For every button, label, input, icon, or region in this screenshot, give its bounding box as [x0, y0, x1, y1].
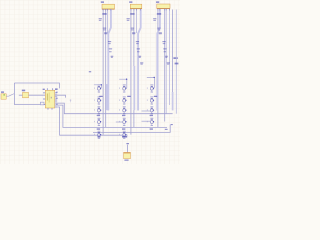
- net label col1 g: [111, 56, 114, 58]
- bus right vertical A lower: [172, 92, 174, 110]
- tick mark: [70, 100, 71, 103]
- net label col1 f: [109, 48, 112, 52]
- wire col3.4 vertical faint: [165, 9, 167, 114]
- net label col2 a: [130, 13, 134, 14]
- connector J1: [102, 4, 115, 9]
- net label col3 g: [165, 56, 168, 58]
- wire U1 left pins: [43, 93, 45, 105]
- wire col2.2 vertical: [133, 9, 135, 127]
- label under row4 x124: [122, 128, 125, 129]
- label U1 refdes: [55, 88, 58, 90]
- net label crystal: [126, 143, 129, 144]
- net label col1 d: [104, 32, 107, 34]
- bus col1 wide vertical: [108, 9, 111, 110]
- net label col3 d: [159, 32, 162, 34]
- net label col3 h: [167, 62, 170, 64]
- bus col1 lower wide: [106, 84, 108, 110]
- net label mid: [89, 71, 91, 72]
- wire crystal stub: [127, 145, 129, 153]
- transistor Q8: [120, 106, 127, 114]
- wire U1 bottom pins: [48, 108, 52, 110]
- capacitor C1 body: [23, 92, 29, 97]
- label J3: [156, 1, 159, 3]
- junction dot x99: [101, 84, 102, 85]
- transistor Q7: [94, 106, 101, 114]
- label X1: [124, 160, 128, 161]
- connector J3: [157, 4, 170, 8]
- connector J2 pin stubs: [131, 9, 141, 10]
- switch S1 lever: [6, 94, 14, 97]
- wire col3 row3 feed: [142, 110, 151, 112]
- wire elbow to U1 left pin: [14, 104, 40, 106]
- net label row4 end: [165, 129, 168, 130]
- label U1 pin1: [43, 89, 45, 90]
- wire col3 row4 feed: [142, 120, 151, 122]
- net label col1 b: [99, 18, 102, 21]
- connector J2: [130, 4, 142, 9]
- wire switch node vertical: [13, 83, 15, 105]
- U1 pin number c: [56, 104, 58, 105]
- U1 pin number a: [56, 92, 58, 93]
- transistor Q5: [120, 96, 127, 104]
- connector J3 pin stubs: [158, 9, 170, 10]
- resistor R1 small box: [40, 102, 44, 105]
- wire feed col glyph chain x99: [94, 85, 102, 88]
- connector J1 pin stubs: [103, 9, 111, 10]
- net label col3 a: [157, 13, 161, 14]
- transistor Q13: [94, 131, 101, 139]
- label under row4 x99: [97, 128, 100, 129]
- wire feed col glyph chain x152: [147, 77, 155, 88]
- net label col2 g: [139, 56, 142, 58]
- wire right vertical B: [175, 10, 177, 114]
- wire col1.1 vertical: [102, 9, 104, 134]
- wire U1 top pins: [47, 88, 52, 90]
- wire col3.3 vertical: [164, 9, 166, 121]
- transistor Q9: [147, 106, 154, 114]
- label J2: [129, 1, 132, 3]
- net label matrix col2: [127, 96, 130, 97]
- label under row3 x152: [150, 115, 153, 116]
- U1 pin number b: [56, 98, 58, 99]
- label under row3 x124: [122, 115, 125, 116]
- wire col1.2 vertical: [105, 9, 107, 127]
- bus col2 wide vertical: [138, 9, 141, 110]
- transistor Q6: [147, 96, 154, 104]
- net label right B: [175, 63, 179, 65]
- net label row5: [122, 136, 127, 138]
- wire right vertical A: [172, 10, 174, 93]
- net label col1 e: [108, 41, 111, 44]
- transistor Q4: [94, 96, 101, 104]
- label J1: [101, 1, 104, 3]
- label S1: [1, 91, 4, 93]
- wire row4: [55, 105, 167, 127]
- wire rail y83: [14, 83, 59, 88]
- wire col2.1 vertical: [130, 9, 132, 134]
- net label col3 c: [157, 28, 160, 31]
- label C1: [22, 90, 25, 92]
- wire col2.3 vertical faint: [135, 9, 137, 33]
- transistor Q3: [147, 84, 154, 92]
- transistor Q12: [147, 118, 154, 126]
- wire col2 row4 feed: [116, 121, 123, 123]
- bus col2 lower wide: [133, 66, 135, 110]
- switch S1 body: [1, 94, 6, 99]
- junction dot x152: [154, 77, 155, 78]
- bus col3 wide vertical: [157, 9, 160, 110]
- tick elbow top: [171, 124, 173, 125]
- wire C1 left stub: [19, 94, 23, 96]
- transistor Q1: [94, 84, 101, 92]
- net label col2 b: [127, 18, 130, 21]
- wire col3.5 vertical faint: [168, 9, 170, 105]
- wire C1 right to U1: [29, 94, 46, 96]
- wire row3: [55, 103, 173, 114]
- net label matrix col1: [99, 96, 102, 97]
- wire col1.3 vertical faint: [107, 9, 109, 33]
- net label col2 e: [136, 41, 139, 44]
- wire U1 pin to stub node: [55, 95, 66, 97]
- transistor Q11: [120, 118, 127, 126]
- net label col3 f: [163, 48, 166, 52]
- transistor Q10: [94, 118, 101, 126]
- net label col2 c: [131, 28, 134, 31]
- net label col3 e: [162, 41, 165, 44]
- wire U1 right pins: [55, 93, 57, 107]
- net label col1 c: [103, 28, 106, 31]
- net label col3 b: [153, 18, 156, 21]
- net label matrix col3: [154, 96, 157, 97]
- crystal X1 body: [124, 152, 131, 158]
- IC U1 body: [45, 90, 55, 108]
- net label row5 col1: [97, 136, 100, 137]
- transistor Q14: [120, 131, 127, 139]
- wire row5 left: [55, 107, 128, 135]
- transistor Q2: [120, 84, 127, 92]
- junction dot x124: [126, 79, 127, 80]
- net label col1 a: [102, 13, 106, 14]
- wire row5 right: [93, 125, 170, 133]
- net label col2 d: [132, 32, 135, 34]
- label under row3 x99: [97, 115, 100, 116]
- wire col3.1 vertical: [157, 9, 159, 127]
- label under row4 x152: [150, 128, 153, 129]
- wire feed col glyph chain x124: [119, 79, 127, 88]
- net label col2 f: [137, 48, 140, 52]
- net label right A: [173, 57, 177, 59]
- net label col2 h: [140, 62, 143, 64]
